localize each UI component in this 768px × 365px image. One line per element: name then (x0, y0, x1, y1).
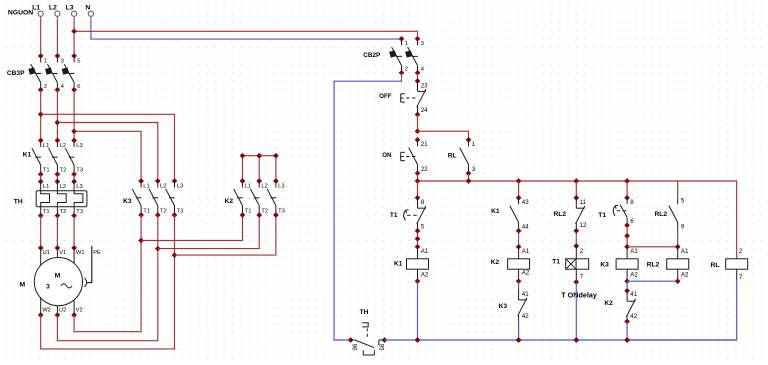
wire L2 to K3-L2 (57, 123, 157, 182)
svg-text:T1: T1 (43, 209, 50, 215)
svg-text:7: 7 (739, 274, 743, 281)
svg-text:T3: T3 (278, 208, 285, 214)
terminal L3 (72, 11, 77, 16)
wire RL to rail (468, 173, 470, 181)
svg-text:41: 41 (630, 291, 637, 298)
svg-text:L2: L2 (60, 184, 66, 190)
wire K3-T2 junction (157, 215, 159, 249)
svg-text:T2: T2 (261, 208, 268, 214)
bottom blue rail (385, 339, 737, 341)
svg-text:1: 1 (405, 41, 408, 47)
svg-text:T1: T1 (390, 212, 398, 219)
svg-text:12: 12 (580, 222, 587, 229)
wire N blue feed (91, 20, 402, 39)
wire L2 to CB3P (56, 20, 58, 56)
wire K1aux to K2 coil blue (518, 231, 520, 247)
svg-text:2: 2 (44, 84, 47, 90)
terminal L2 (55, 11, 60, 16)
svg-text:CB3P: CB3P (7, 70, 25, 77)
svg-text:21: 21 (421, 141, 428, 148)
svg-text:T1: T1 (43, 168, 50, 174)
svg-text:6: 6 (630, 218, 634, 225)
svg-text:L1: L1 (143, 184, 149, 190)
svg-text:T1: T1 (598, 212, 606, 219)
svg-text:CB2P: CB2P (363, 52, 381, 59)
svg-text:U1: U1 (43, 250, 50, 256)
wire L1 to CB3P (40, 20, 42, 56)
node after OFF (415, 128, 421, 134)
svg-text:T3: T3 (76, 209, 83, 215)
wire K3-T1 to K2-T1 (141, 215, 242, 241)
svg-text:T2: T2 (60, 209, 67, 215)
svg-text:41: 41 (522, 291, 529, 298)
svg-text:44: 44 (522, 224, 529, 231)
svg-text:A1: A1 (522, 248, 530, 255)
wire V2 to K3-T1 (74, 241, 141, 332)
motor stub V2 (73, 300, 75, 315)
svg-text:K1: K1 (491, 208, 500, 215)
svg-text:3: 3 (61, 58, 64, 64)
svg-text:3: 3 (472, 166, 476, 173)
svg-text:1: 1 (44, 58, 47, 64)
svg-text:L2: L2 (60, 143, 66, 149)
svg-text:N: N (85, 4, 90, 11)
wire rail to RL2 contact (575, 181, 577, 198)
svg-text:K3: K3 (600, 262, 609, 269)
svg-text:42: 42 (522, 313, 529, 320)
svg-text:K1: K1 (394, 261, 403, 268)
svg-text:V1: V1 (59, 250, 66, 256)
wire K1 to TH x3 (40, 174, 42, 181)
svg-text:2: 2 (405, 66, 408, 72)
svg-text:T2: T2 (160, 208, 167, 214)
svg-text:L3: L3 (66, 4, 74, 11)
node L1 tap (38, 111, 44, 117)
svg-text:43: 43 (522, 199, 529, 206)
svg-text:K2: K2 (604, 300, 613, 307)
wire RL2NO to RL2 coil (677, 231, 679, 247)
svg-text:3: 3 (421, 41, 424, 47)
wire K3-T2 to K2-T2 (158, 215, 259, 249)
wire ON to rail (417, 173, 419, 181)
svg-text:K2: K2 (225, 198, 234, 205)
svg-text:8: 8 (630, 199, 634, 206)
svg-text:2: 2 (580, 248, 584, 255)
wire T1NO to K3 coil (626, 225, 628, 247)
node W2 (38, 312, 44, 318)
svg-text:L2: L2 (261, 184, 267, 190)
wire CB2P pole1 to left blue rail (334, 73, 401, 340)
control rail (418, 181, 737, 259)
svg-text:K3: K3 (499, 303, 508, 310)
svg-text:L1: L1 (245, 184, 251, 190)
wire rail to RL2 NO (677, 181, 679, 198)
svg-text:OFF: OFF (379, 93, 392, 100)
node L3 tap2 (71, 128, 77, 134)
svg-text:W1: W1 (76, 250, 85, 256)
svg-text:9: 9 (681, 224, 685, 231)
svg-text:V2: V2 (76, 307, 83, 313)
svg-text:L1: L1 (43, 143, 49, 149)
svg-text:M: M (55, 272, 61, 279)
wire K3-T1 junction (140, 215, 142, 241)
svg-text:T1: T1 (143, 208, 150, 214)
svg-text:5: 5 (77, 58, 80, 64)
svg-text:W2: W2 (42, 307, 51, 313)
wire A2 link K3-RL2 blue (627, 280, 678, 282)
wire L3 to CB3P (73, 20, 75, 56)
wire CB3P out L1 (40, 90, 42, 141)
motor stub W1 (73, 248, 75, 264)
wire rail to K1 aux (518, 181, 520, 198)
svg-text:TH: TH (14, 198, 23, 205)
wire T1 coil to rail blue (575, 282, 577, 340)
svg-text:3: 3 (46, 284, 50, 291)
svg-text:RL2: RL2 (655, 211, 668, 218)
wire L3 to K3-L1 (74, 131, 141, 181)
node U2 (55, 312, 61, 318)
svg-text:A1: A1 (630, 248, 638, 255)
svg-text:11: 11 (580, 199, 587, 206)
svg-text:K3: K3 (123, 198, 132, 205)
svg-text:A2: A2 (421, 272, 429, 279)
svg-text:L3: L3 (278, 184, 284, 190)
motor stub U1 (40, 248, 42, 266)
svg-text:A2: A2 (522, 269, 530, 276)
svg-text:T2: T2 (60, 168, 67, 174)
svg-text:L3: L3 (177, 184, 183, 190)
svg-text:2: 2 (739, 248, 743, 255)
star bridge wire (243, 155, 276, 157)
wire K3-T3 to K2-T3 (175, 215, 276, 255)
svg-text:L3: L3 (76, 143, 82, 149)
svg-text:L2: L2 (49, 4, 57, 11)
terminal N (88, 11, 93, 16)
svg-text:42: 42 (630, 313, 637, 320)
wire K3-A2 to K2 NC blue (626, 281, 628, 291)
node L2 tap (55, 120, 61, 126)
wire K2-A2 to K3 NC blue (518, 281, 520, 289)
svg-text:A2: A2 (630, 271, 638, 278)
svg-text:L1: L1 (32, 4, 40, 11)
svg-text:A1: A1 (421, 248, 429, 255)
svg-text:T1: T1 (245, 208, 252, 214)
wire rail to T1 contact (417, 181, 419, 198)
wire rail to T1 NO (626, 181, 628, 198)
wire T1 to K1 coil (417, 231, 419, 247)
svg-text:A2: A2 (681, 271, 689, 278)
svg-text:6: 6 (77, 84, 80, 90)
wire TH to motor x3 (40, 216, 42, 248)
svg-text:ON: ON (382, 152, 392, 159)
svg-text:RL: RL (711, 262, 720, 269)
wire RL coil to rail blue (627, 280, 737, 340)
svg-text:T3: T3 (76, 168, 83, 174)
wire RL2 to T1 coil blue (575, 231, 577, 246)
svg-text:24: 24 (421, 107, 428, 114)
svg-text:L1: L1 (43, 184, 49, 190)
node L3 tap (71, 28, 77, 34)
svg-text:T3: T3 (177, 208, 184, 214)
svg-text:5: 5 (421, 224, 425, 231)
wire K1-A2 to rail blue (417, 281, 419, 340)
svg-text:PE: PE (93, 250, 101, 256)
wire CB3P out L3 (73, 90, 75, 141)
svg-text:T ONdelay: T ONdelay (561, 290, 597, 299)
svg-text:K1: K1 (23, 152, 32, 159)
terminal L1 (38, 11, 43, 16)
motor stub V1 (56, 248, 58, 258)
svg-text:K2: K2 (491, 259, 500, 266)
wire node to RL contact (418, 131, 469, 140)
svg-text:1: 1 (472, 141, 476, 148)
wire OFF to node (417, 115, 419, 132)
motor stub W2 (40, 298, 42, 315)
svg-text:L2: L2 (160, 184, 166, 190)
svg-text:U2: U2 (59, 307, 66, 313)
svg-text:TH: TH (360, 309, 369, 316)
svg-text:5: 5 (681, 198, 685, 205)
wire L3 red feed to CB2P (74, 31, 417, 39)
motor stub U2 (56, 306, 58, 315)
svg-text:L3: L3 (76, 184, 82, 190)
svg-text:7: 7 (580, 274, 584, 281)
svg-text:NGUON: NGUON (8, 10, 33, 17)
node V2 (71, 312, 77, 318)
wire W2 to K3-T3 (41, 255, 175, 349)
svg-text:RL: RL (448, 153, 457, 160)
svg-text:T1: T1 (552, 258, 560, 265)
wire A1 link K3-RL2 (627, 246, 678, 248)
svg-text:A1: A1 (681, 248, 689, 255)
svg-text:96: 96 (351, 344, 357, 351)
wire U2 to K3-T2 (57, 249, 157, 341)
wire K3-T3 junction (174, 215, 176, 255)
svg-text:8: 8 (421, 199, 425, 206)
wire K3 NC to rail blue (518, 322, 520, 341)
svg-text:RL2: RL2 (647, 262, 660, 269)
svg-text:22: 22 (421, 166, 428, 173)
wire CB2P pole2 to OFF (417, 73, 419, 81)
wire L1 to K3-L3 (41, 114, 175, 181)
svg-text:M: M (20, 282, 26, 289)
wire K2 NC to rail blue (626, 322, 628, 341)
svg-text:23: 23 (421, 82, 428, 89)
wire CB3P out L2 (56, 90, 58, 141)
svg-text:RL2: RL2 (554, 211, 567, 218)
